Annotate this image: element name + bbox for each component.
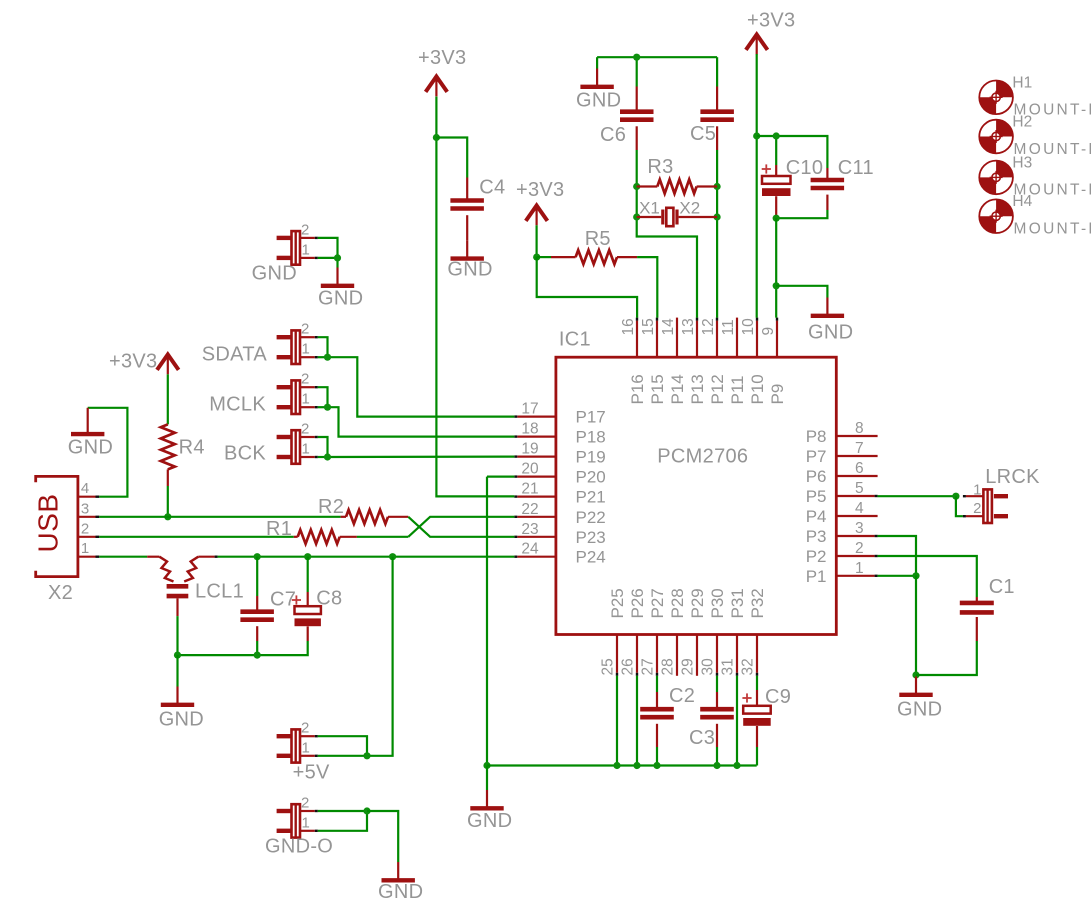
junction C6 top bbox=[633, 54, 640, 61]
wire SDATA net to pin17 bbox=[318, 337, 328, 357]
svg-text:LRCK: LRCK bbox=[985, 466, 1040, 488]
svg-text:GND: GND bbox=[447, 259, 492, 281]
capacitor C4 bbox=[466, 178, 468, 201]
ground GND below LCL1 bbox=[176, 687, 178, 704]
wire C1 bottom to gnd bbox=[916, 641, 977, 675]
svg-text:R4: R4 bbox=[179, 437, 205, 459]
svg-text:4: 4 bbox=[81, 480, 89, 497]
wire USB pin1 VBUS to LCL1 bbox=[99, 556, 147, 558]
svg-text:11: 11 bbox=[720, 319, 737, 335]
IC1 right pins 8-1 bbox=[806, 420, 878, 586]
svg-text:PCM2706: PCM2706 bbox=[657, 446, 748, 468]
junction C10 top bbox=[773, 132, 780, 139]
pin header JP GND top-left bbox=[277, 236, 291, 240]
junction pin1 pin3 bbox=[912, 572, 919, 579]
svg-text:+3V3: +3V3 bbox=[747, 10, 795, 32]
crystal X1 X2 bbox=[637, 216, 662, 218]
svg-text:H4: H4 bbox=[1012, 193, 1032, 210]
svg-text:P15: P15 bbox=[648, 374, 667, 404]
junction C7 gnd bbox=[254, 652, 261, 659]
svg-text:2: 2 bbox=[301, 720, 309, 737]
junction +5V bbox=[363, 752, 370, 759]
wire gnd bus to ground bbox=[486, 766, 488, 791]
pin header BCK bbox=[277, 435, 291, 439]
capacitor C1 bbox=[976, 597, 978, 602]
svg-text:P23: P23 bbox=[576, 528, 606, 547]
IC1 bottom pins 25-32 bbox=[600, 588, 767, 676]
junction GND header bbox=[334, 254, 341, 261]
wire pin5 to LRCK bbox=[878, 495, 956, 497]
svg-text:GND-O: GND-O bbox=[265, 836, 333, 858]
junction BCK bbox=[324, 453, 331, 460]
wire +3V3 down to C4 and pin21 bbox=[436, 97, 514, 497]
svg-text:P30: P30 bbox=[708, 588, 727, 618]
svg-text:P10: P10 bbox=[748, 374, 767, 404]
wire USB pin4 to GND bbox=[88, 408, 128, 497]
junction MCLK bbox=[324, 404, 331, 411]
wire USB pin2 row to R1 bbox=[99, 536, 293, 538]
svg-text:19: 19 bbox=[521, 441, 538, 458]
resistor R1 bbox=[294, 536, 298, 538]
junction C10 bottom bbox=[773, 215, 780, 222]
svg-text:P20: P20 bbox=[576, 468, 606, 487]
svg-text:24: 24 bbox=[521, 541, 539, 558]
svg-text:23: 23 bbox=[521, 521, 538, 538]
svg-text:+3V3: +3V3 bbox=[418, 47, 466, 69]
ground GND top center bbox=[596, 69, 598, 86]
svg-text:BCK: BCK bbox=[224, 443, 266, 465]
svg-text:7: 7 bbox=[855, 440, 864, 457]
svg-text:5: 5 bbox=[855, 480, 864, 497]
mount hole H4 bbox=[979, 199, 1013, 233]
ground GND below header bbox=[336, 268, 338, 285]
junction pin25 bus bbox=[613, 762, 620, 769]
junction +5V drop bbox=[389, 553, 396, 560]
svg-text:6: 6 bbox=[855, 460, 864, 477]
svg-text:P4: P4 bbox=[806, 507, 827, 526]
svg-text:13: 13 bbox=[680, 318, 697, 335]
resistor R2 bbox=[341, 516, 346, 518]
svg-text:P28: P28 bbox=[668, 588, 687, 618]
svg-text:31: 31 bbox=[720, 658, 737, 675]
junction C8 top bbox=[304, 553, 311, 560]
ground GND right bbox=[915, 677, 917, 694]
wire BCK net to pin19 bbox=[318, 437, 328, 457]
junction R5 left bbox=[533, 254, 540, 261]
ground GND left of USB bbox=[87, 408, 89, 433]
svg-text:P19: P19 bbox=[576, 448, 606, 467]
mount hole H1 bbox=[979, 81, 1013, 115]
svg-text:10: 10 bbox=[740, 318, 757, 336]
svg-text:MOUNT-PAD-R: MOUNT-PAD-R bbox=[1014, 221, 1091, 238]
svg-text:USB: USB bbox=[33, 493, 64, 552]
svg-text:14: 14 bbox=[660, 318, 677, 336]
power +3V3 symbol top right bbox=[746, 35, 768, 50]
svg-text:P17: P17 bbox=[576, 408, 606, 427]
svg-text:3: 3 bbox=[81, 500, 89, 517]
wire pin31 drop bbox=[736, 676, 738, 766]
pin header GND-O bbox=[277, 809, 291, 813]
wire R4 to USB pin3 net bbox=[167, 486, 169, 517]
wire C4 branch bbox=[436, 138, 467, 178]
svg-text:P32: P32 bbox=[748, 588, 767, 618]
svg-text:P12: P12 bbox=[708, 374, 727, 404]
svg-text:22: 22 bbox=[521, 501, 538, 518]
svg-text:+3V3: +3V3 bbox=[516, 179, 564, 201]
svg-text:2: 2 bbox=[301, 795, 309, 812]
pin header +5V bbox=[277, 734, 291, 738]
svg-text:C9: C9 bbox=[765, 686, 791, 708]
wire gnd bus bottom bbox=[487, 764, 757, 766]
capacitor C3 on pin30 bbox=[716, 676, 718, 692]
capacitor C8 polarized bbox=[307, 557, 309, 592]
wire +3V3 branch to pin16 bbox=[537, 257, 637, 318]
svg-text:12: 12 bbox=[700, 318, 717, 335]
junction pin30 bus bbox=[713, 762, 720, 769]
wire R5 to pin15 bbox=[637, 257, 657, 318]
capacitor C2 on pin27 bbox=[656, 676, 658, 692]
svg-text:+3V3: +3V3 bbox=[109, 351, 157, 373]
svg-text:IC1: IC1 bbox=[559, 329, 591, 351]
wire top GND to C6 C5 bbox=[597, 56, 717, 58]
svg-text:P26: P26 bbox=[628, 588, 647, 618]
svg-text:2: 2 bbox=[301, 321, 309, 338]
svg-text:2: 2 bbox=[855, 540, 864, 557]
svg-text:2: 2 bbox=[973, 500, 981, 517]
svg-text:P11: P11 bbox=[728, 376, 747, 405]
svg-text:GND: GND bbox=[318, 288, 363, 310]
capacitor C11 bbox=[826, 168, 828, 180]
svg-text:26: 26 bbox=[620, 658, 637, 675]
svg-text:C11: C11 bbox=[838, 157, 874, 179]
capacitor C5 bbox=[716, 87, 718, 112]
svg-text:25: 25 bbox=[600, 658, 617, 675]
svg-text:21: 21 bbox=[521, 481, 538, 498]
svg-text:GND: GND bbox=[808, 322, 853, 344]
junction +3V3/C10 branch bbox=[753, 132, 760, 139]
capacitor C6 bbox=[636, 87, 638, 112]
svg-text:20: 20 bbox=[521, 461, 539, 478]
svg-text:GND: GND bbox=[68, 437, 113, 459]
svg-text:P18: P18 bbox=[576, 428, 606, 447]
svg-text:1: 1 bbox=[302, 441, 310, 458]
wire MCLK net to pin18 bbox=[318, 387, 328, 407]
svg-text:15: 15 bbox=[640, 318, 657, 335]
wire LCL1 gnd drop bbox=[176, 655, 178, 686]
wire pin9 net vertical bbox=[775, 218, 777, 317]
svg-text:H3: H3 bbox=[1012, 154, 1032, 171]
svg-text:1: 1 bbox=[302, 391, 310, 408]
junction X1 left bbox=[633, 213, 640, 220]
wire down to gnd right bbox=[915, 576, 917, 675]
svg-text:P2: P2 bbox=[806, 547, 827, 566]
capacitor C9 polarized on pin32 bbox=[756, 676, 758, 690]
wire R1 to crossing bbox=[357, 536, 408, 538]
svg-text:P6: P6 bbox=[806, 467, 827, 486]
svg-text:MCLK: MCLK bbox=[209, 394, 266, 416]
wire C6 top lead drop bbox=[636, 57, 638, 86]
svg-text:C5: C5 bbox=[690, 123, 716, 145]
junction GND-O bbox=[363, 807, 370, 814]
svg-text:8: 8 bbox=[855, 420, 864, 437]
IC1 top pins 16-9 bbox=[620, 318, 787, 405]
wire pin20 net vertical to gnd bus bbox=[487, 476, 514, 478]
svg-text:2: 2 bbox=[301, 221, 309, 238]
wire pin9 to GND right bbox=[776, 286, 827, 298]
ground GND below C4 bbox=[466, 240, 468, 256]
ground GND below GND-O bbox=[397, 862, 399, 879]
wire pin3 down to pin1 row bbox=[878, 536, 916, 576]
wire pin2 to C1 bbox=[878, 556, 977, 597]
junction LRCK bbox=[952, 493, 959, 500]
wire R4 +3V3 stem bbox=[167, 374, 169, 424]
power +3V3 symbol above C4 bbox=[426, 77, 448, 92]
svg-text:P3: P3 bbox=[806, 527, 827, 546]
svg-text:P1: P1 bbox=[806, 567, 827, 586]
wire GND stub at 597 bbox=[596, 57, 598, 68]
svg-text:R3: R3 bbox=[647, 156, 673, 178]
wire R5 left lead stub bbox=[537, 256, 551, 258]
svg-text:2: 2 bbox=[301, 371, 309, 388]
svg-text:P16: P16 bbox=[628, 374, 647, 404]
svg-text:P5: P5 bbox=[806, 487, 827, 506]
svg-text:H2: H2 bbox=[1012, 114, 1032, 131]
junction R3 right bbox=[714, 183, 721, 190]
wire USB pin3 row to R2 bbox=[99, 516, 340, 518]
svg-text:P22: P22 bbox=[576, 508, 606, 527]
power +3V3 symbol above R4 bbox=[157, 355, 179, 370]
junction R4 bottom bbox=[164, 513, 171, 520]
wire +5V header pins bbox=[318, 736, 367, 756]
svg-text:SDATA: SDATA bbox=[202, 344, 268, 366]
svg-text:+5V: +5V bbox=[293, 762, 330, 784]
wire C5 top lead drop bbox=[716, 57, 718, 86]
svg-text:X2: X2 bbox=[679, 199, 700, 218]
svg-text:GND: GND bbox=[378, 881, 423, 903]
wire GND header pins bbox=[318, 238, 338, 258]
svg-text:C10: C10 bbox=[786, 157, 824, 179]
svg-text:R1: R1 bbox=[266, 518, 292, 540]
svg-text:17: 17 bbox=[521, 401, 538, 418]
wire LRCK pin2 jog bbox=[956, 496, 963, 516]
junction gnd bus left bbox=[483, 762, 490, 769]
wire LCL1 tap to gnd bus bbox=[176, 616, 178, 655]
resistor R3 bbox=[637, 185, 658, 187]
wire GND-O to ground bbox=[367, 811, 398, 862]
svg-text:1: 1 bbox=[973, 482, 981, 499]
svg-text:C4: C4 bbox=[479, 177, 505, 199]
wire C7 C8 gnd bus bbox=[256, 641, 258, 655]
mount hole H3 bbox=[979, 161, 1013, 195]
junction R3 left bbox=[633, 183, 640, 190]
wire pin1 row bbox=[878, 575, 916, 577]
svg-text:1: 1 bbox=[855, 560, 864, 577]
pin header LRCK mirrored bbox=[966, 495, 984, 497]
svg-text:P9: P9 bbox=[768, 384, 787, 405]
svg-text:1: 1 bbox=[302, 241, 310, 258]
junction LCL1 gnd bbox=[174, 652, 181, 659]
junction pin27 bus bbox=[653, 762, 660, 769]
wire +3V3 R5 stem to junction bbox=[535, 225, 537, 257]
connector X2 pins 4,3,2,1 bbox=[78, 480, 99, 557]
junction SDATA bbox=[324, 354, 331, 361]
svg-text:1: 1 bbox=[302, 739, 310, 756]
svg-text:GND: GND bbox=[576, 90, 621, 112]
connector X2 USB body bbox=[36, 476, 78, 576]
wire C11 bottom to C10 bottom bbox=[776, 210, 827, 218]
svg-text:30: 30 bbox=[700, 658, 717, 676]
junction pin26 bus bbox=[633, 762, 640, 769]
svg-text:P7: P7 bbox=[806, 447, 827, 466]
capacitor C10 polarized bbox=[775, 165, 777, 176]
junction pin9 GND branch bbox=[773, 282, 780, 289]
wire R1 diagonal to pin22 bbox=[408, 517, 514, 537]
wire +5V net drop from VBUS bbox=[367, 557, 393, 756]
svg-text:16: 16 bbox=[620, 318, 637, 335]
svg-text:P31: P31 bbox=[728, 588, 747, 618]
pin header MCLK bbox=[277, 385, 291, 389]
wire R2 diagonal to pin23 bbox=[408, 517, 514, 537]
wire crystal right net C5-R3-X1 to pin12 bbox=[716, 150, 718, 318]
svg-text:H1: H1 bbox=[1012, 74, 1032, 91]
svg-text:P27: P27 bbox=[648, 588, 667, 618]
svg-text:32: 32 bbox=[740, 658, 757, 675]
junction C1 gnd bbox=[912, 671, 919, 678]
svg-text:X2: X2 bbox=[48, 582, 73, 604]
svg-text:28: 28 bbox=[660, 658, 677, 675]
svg-text:18: 18 bbox=[521, 421, 538, 438]
power +3V3 symbol above R5 bbox=[526, 206, 548, 221]
ground GND top right bbox=[826, 298, 828, 315]
wire pin26 drop bbox=[636, 676, 638, 766]
junction pin31 bus bbox=[733, 762, 740, 769]
capacitor C7 bbox=[256, 557, 258, 596]
svg-text:P21: P21 bbox=[576, 488, 606, 507]
svg-text:GND: GND bbox=[467, 810, 512, 832]
pin header SDATA bbox=[277, 335, 291, 339]
wire crystal left net C6-R3-X1 to pin13 bbox=[637, 150, 697, 318]
inductor LCL1 bbox=[147, 556, 159, 558]
svg-text:1: 1 bbox=[81, 540, 89, 557]
resistor R4 vertical bbox=[161, 424, 175, 469]
wire +3V3 top right to pin10 bbox=[756, 54, 758, 318]
svg-text:C6: C6 bbox=[600, 124, 626, 146]
svg-text:GND: GND bbox=[897, 699, 942, 721]
svg-text:P14: P14 bbox=[668, 374, 687, 404]
svg-text:4: 4 bbox=[855, 500, 864, 517]
svg-text:9: 9 bbox=[760, 327, 777, 336]
svg-text:27: 27 bbox=[640, 658, 657, 675]
junction X1 right bbox=[714, 213, 721, 220]
IC1 left pins 17-24 bbox=[514, 401, 605, 567]
svg-text:P29: P29 bbox=[688, 588, 707, 618]
wire GND-O header pins bbox=[318, 810, 367, 812]
svg-text:2: 2 bbox=[301, 421, 309, 438]
wire pin25 drop bbox=[616, 676, 618, 766]
op-amp U? no - IC1 PCM2706 body bbox=[556, 357, 836, 634]
svg-text:R2: R2 bbox=[318, 496, 344, 518]
mount hole H2 bbox=[979, 120, 1013, 154]
svg-text:C2: C2 bbox=[669, 685, 695, 707]
svg-text:C3: C3 bbox=[689, 727, 715, 749]
svg-text:C1: C1 bbox=[989, 576, 1015, 598]
svg-text:GND: GND bbox=[159, 709, 204, 731]
svg-text:1: 1 bbox=[302, 341, 310, 358]
svg-text:P8: P8 bbox=[806, 427, 827, 446]
ground GND bottom center bbox=[486, 790, 488, 807]
svg-text:C8: C8 bbox=[316, 588, 342, 610]
svg-text:P24: P24 bbox=[576, 548, 606, 567]
svg-text:P13: P13 bbox=[688, 374, 707, 404]
resistor R5 bbox=[551, 256, 576, 258]
svg-text:2: 2 bbox=[81, 520, 89, 537]
svg-text:P25: P25 bbox=[608, 588, 627, 618]
svg-text:X1: X1 bbox=[639, 199, 660, 218]
wire C10 C11 top branch bbox=[757, 136, 828, 168]
wire C10 top lead bbox=[775, 136, 777, 165]
svg-text:3: 3 bbox=[855, 520, 864, 537]
svg-text:R5: R5 bbox=[585, 228, 611, 250]
svg-text:1: 1 bbox=[302, 814, 310, 831]
svg-text:GND: GND bbox=[252, 263, 297, 285]
svg-text:LCL1: LCL1 bbox=[195, 581, 244, 603]
junction C7 top bbox=[254, 553, 261, 560]
wire VBUS row to pin24 bbox=[218, 556, 515, 558]
svg-text:29: 29 bbox=[680, 658, 697, 675]
junction C4 branch bbox=[433, 134, 440, 141]
